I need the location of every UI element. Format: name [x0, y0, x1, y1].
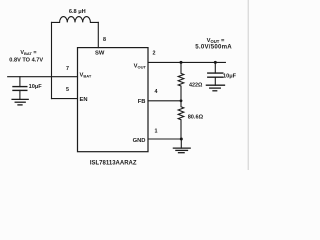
svg-text:5: 5 [66, 87, 69, 93]
wire EN [52, 98, 78, 100]
op-amp U1 IC body [78, 48, 149, 152]
ground left [12, 98, 28, 100]
wire FB [148, 100, 181, 102]
svg-text:ISL78113AARAZ: ISL78113AARAZ [90, 161, 137, 167]
svg-text:FB: FB [138, 99, 146, 105]
svg-text:VOUT: VOUT [134, 64, 147, 70]
capacitor C2 10uF top stub [214, 62, 216, 73]
svg-text:6.8 μH: 6.8 μH [69, 9, 86, 15]
svg-text:5.0V/500mA: 5.0V/500mA [195, 43, 232, 50]
svg-text:2: 2 [153, 51, 156, 57]
page edge line right [247, 0, 249, 170]
inductor L1 6.8uH [52, 17, 99, 23]
svg-text:SW: SW [95, 50, 105, 56]
capacitor C1 bottom stub [19, 90, 21, 99]
svg-text:GND: GND [133, 138, 146, 144]
capacitor C2 bottom stub [214, 77, 216, 85]
svg-text:VBAT: VBAT [80, 73, 92, 79]
wire VBAT rail [8, 76, 78, 78]
svg-text:VBAT =: VBAT = [20, 50, 36, 56]
wire SW vertical [97, 22, 99, 47]
node junction dot GND [180, 138, 183, 141]
node junction dot R1 top [180, 61, 183, 64]
resistor R1 422 ohm [178, 62, 184, 100]
node junction dot C2 top [214, 61, 217, 64]
ground bottom right [180, 139, 182, 148]
svg-text:10μF: 10μF [29, 84, 43, 90]
capacitor C2 plates [208, 72, 223, 74]
svg-text:0.8V TO 4.7V: 0.8V TO 4.7V [9, 57, 43, 63]
svg-text:1: 1 [155, 128, 158, 134]
wire GND [148, 138, 181, 140]
svg-text:EN: EN [80, 97, 88, 103]
svg-text:8: 8 [103, 37, 106, 43]
node junction dot FB [180, 99, 183, 102]
svg-text:4: 4 [155, 89, 158, 95]
svg-text:10μF: 10μF [223, 73, 237, 79]
capacitor C1 10uF left stub [19, 77, 21, 87]
capacitor C1 plates [13, 86, 27, 88]
wire VOUT [148, 61, 225, 63]
resistor R2 80.6 ohm [178, 101, 184, 139]
svg-text:422Ω: 422Ω [189, 82, 203, 88]
wire left rail vertical [51, 22, 53, 98]
svg-text:7: 7 [66, 66, 69, 72]
ground under C2 [206, 84, 224, 86]
svg-text:80.6Ω: 80.6Ω [188, 115, 204, 121]
